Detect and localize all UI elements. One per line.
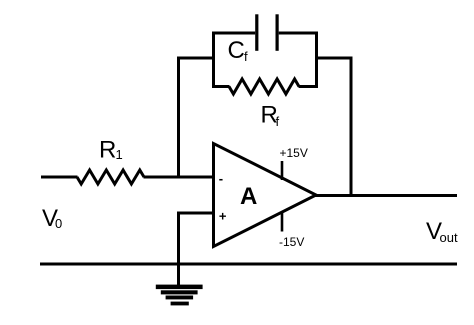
svg-text:f: f [244, 49, 248, 64]
label V0 [42, 205, 62, 232]
wire loop top left [212, 32, 255, 35]
wire bottom rail [40, 263, 457, 266]
wire -15V stub [281, 212, 284, 232]
wire loop bottom right [299, 85, 319, 88]
svg-text:0: 0 [55, 216, 62, 231]
wire loop right external [315, 57, 353, 60]
svg-text:C: C [228, 37, 245, 64]
wire loop right vertical [315, 32, 318, 89]
wire feedback left vertical [177, 57, 180, 179]
svg-text:f: f [276, 114, 280, 129]
label Cf [228, 37, 249, 64]
wire loop left external [177, 57, 215, 60]
capacitor C_f [255, 14, 279, 51]
svg-text:1: 1 [116, 147, 123, 162]
svg-text:out: out [440, 230, 458, 245]
wire input segment [41, 176, 78, 179]
svg-text:A: A [240, 183, 257, 210]
svg-text:+15V: +15V [280, 146, 308, 160]
resistor R1 [77, 170, 144, 184]
svg-text:+: + [219, 209, 227, 224]
svg-text:-15V: -15V [279, 235, 304, 249]
wire feedback right vertical [350, 57, 353, 196]
wire output [314, 194, 457, 197]
wire +15V stub [281, 161, 284, 180]
label Vout [426, 218, 458, 245]
wire R1 to op-amp inverting input [144, 176, 215, 179]
wire ground vertical [177, 212, 180, 286]
resistor Rf [229, 79, 299, 94]
label Rf [261, 102, 280, 130]
svg-text:R: R [99, 137, 116, 164]
wire non-inverting input [177, 212, 214, 215]
wire loop top right [279, 32, 318, 35]
ground [156, 285, 203, 306]
op-amp U1 triangle [214, 144, 317, 247]
label R1 [99, 137, 123, 164]
wire loop bottom left [212, 85, 230, 88]
wire loop left vertical [212, 32, 215, 89]
svg-text:-: - [219, 171, 223, 186]
